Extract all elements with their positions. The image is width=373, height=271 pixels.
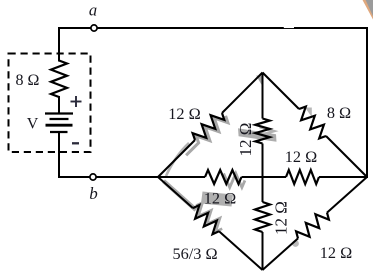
resistor 12 ohm vertical upper (top vertex to center) [236, 73, 270, 178]
resistor 8 ohm upper-right (top vertex to right vertex) [263, 73, 368, 178]
resistor 8 ohm (series, inside box) [16, 61, 67, 98]
svg-text:12 Ω: 12 Ω [285, 147, 317, 166]
svg-text:12 Ω: 12 Ω [204, 189, 236, 208]
svg-text:12 Ω: 12 Ω [236, 123, 255, 157]
svg-text:8 Ω: 8 Ω [16, 72, 40, 89]
wire top (node a to right side) [59, 27, 367, 28]
resistor 56/3 ohm lower-left (left vertex to bottom vertex) [158, 177, 263, 270]
svg-text:12 Ω: 12 Ω [272, 201, 291, 235]
resistor 12 ohm horizontal right (center to right vertex) [263, 147, 368, 184]
wire right side (a to right vertex) [366, 27, 368, 178]
wire battery to node b [58, 131, 60, 178]
svg-text:8 Ω: 8 Ω [327, 103, 351, 122]
svg-text:a: a [89, 1, 97, 20]
wire resistor to battery [58, 96, 60, 114]
battery V (voltage source) [27, 96, 82, 143]
wire bottom (b to left vertex) [58, 176, 158, 178]
node b [89, 174, 98, 203]
node a [89, 1, 97, 32]
resistor 12 ohm lower-right (bottom vertex to right vertex) [263, 177, 368, 270]
svg-text:12 Ω: 12 Ω [320, 243, 352, 262]
svg-text:b: b [89, 184, 98, 203]
resistor 12 ohm vertical lower (center to bottom vertex) [255, 177, 291, 270]
svg-text:V: V [27, 116, 39, 133]
svg-text:12 Ω: 12 Ω [168, 104, 200, 123]
dashed source box [9, 54, 91, 153]
svg-text:56/3 Ω: 56/3 Ω [172, 244, 217, 263]
resistor 12 ohm horizontal left (left vertex to center) [158, 170, 263, 208]
wire left (a down to source box) [58, 27, 60, 62]
resistor 12 ohm upper-left (left vertex to top vertex) [158, 73, 263, 178]
